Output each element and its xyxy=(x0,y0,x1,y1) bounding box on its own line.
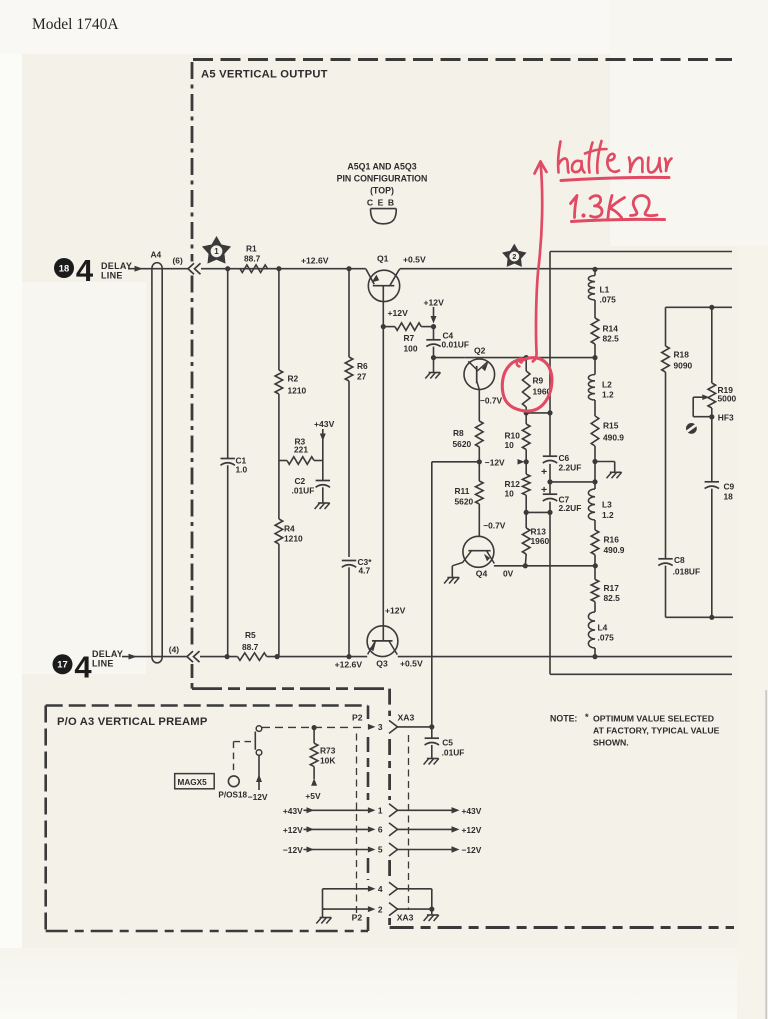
svg-text:4: 4 xyxy=(76,253,94,288)
svg-text:−0.7V: −0.7V xyxy=(483,520,506,530)
svg-text:C2: C2 xyxy=(295,476,306,486)
svg-text:B: B xyxy=(388,198,394,208)
svg-text:5: 5 xyxy=(378,845,383,855)
svg-text:C5: C5 xyxy=(442,738,453,748)
svg-text:+12V: +12V xyxy=(424,298,445,308)
svg-text:R6: R6 xyxy=(357,361,368,371)
svg-text:R12: R12 xyxy=(505,479,521,489)
svg-text:2.2UF: 2.2UF xyxy=(559,503,582,513)
svg-text:0.01UF: 0.01UF xyxy=(442,340,469,350)
svg-text:10K: 10K xyxy=(320,756,335,766)
svg-text:490.9: 490.9 xyxy=(604,545,625,555)
svg-text:+0.5V: +0.5V xyxy=(403,255,426,265)
svg-text:2.2UF: 2.2UF xyxy=(559,463,582,473)
svg-text:82.5: 82.5 xyxy=(603,334,620,344)
svg-text:*: * xyxy=(585,712,589,722)
svg-text:R18: R18 xyxy=(674,350,690,360)
svg-text:R5: R5 xyxy=(245,630,256,640)
svg-text:+43V: +43V xyxy=(314,419,335,429)
svg-text:+: + xyxy=(541,484,547,496)
svg-text:XA3: XA3 xyxy=(397,913,414,923)
svg-text:L4: L4 xyxy=(598,623,608,633)
svg-text:(6): (6) xyxy=(173,256,183,266)
svg-text:0V: 0V xyxy=(503,569,514,579)
svg-text:HF3: HF3 xyxy=(718,413,734,423)
svg-text:R15: R15 xyxy=(603,421,619,431)
svg-text:C8: C8 xyxy=(674,555,685,565)
svg-text:−12V: −12V xyxy=(485,457,505,467)
svg-text:.075: .075 xyxy=(598,633,615,643)
svg-text:10: 10 xyxy=(505,440,515,450)
svg-text:L3: L3 xyxy=(602,500,612,510)
svg-text:L2: L2 xyxy=(602,380,612,390)
svg-text:Model 1740A: Model 1740A xyxy=(32,16,119,33)
svg-text:P/OS18: P/OS18 xyxy=(218,791,247,800)
svg-text:1960: 1960 xyxy=(531,536,550,546)
svg-text:A4: A4 xyxy=(151,250,162,260)
svg-text:5620: 5620 xyxy=(453,439,472,449)
svg-text:3: 3 xyxy=(378,722,383,732)
svg-text:+12V: +12V xyxy=(462,825,482,835)
svg-text:1210: 1210 xyxy=(284,534,303,544)
svg-text:Q3: Q3 xyxy=(376,659,388,669)
svg-text:OPTIMUM VALUE SELECTED: OPTIMUM VALUE SELECTED xyxy=(593,714,714,724)
svg-text:LINE: LINE xyxy=(92,659,114,669)
svg-text:1.2: 1.2 xyxy=(602,510,614,520)
svg-text:(TOP): (TOP) xyxy=(370,186,394,196)
svg-text:R8: R8 xyxy=(453,428,464,438)
svg-text:1.0: 1.0 xyxy=(236,465,248,475)
svg-text:4.7: 4.7 xyxy=(359,566,371,576)
svg-text:88.7: 88.7 xyxy=(244,254,261,264)
svg-text:+12V: +12V xyxy=(385,606,406,616)
svg-text:SHOWN.: SHOWN. xyxy=(593,738,629,748)
svg-text:221: 221 xyxy=(294,445,308,455)
svg-text:1: 1 xyxy=(378,806,383,816)
svg-text:1.2: 1.2 xyxy=(602,390,614,400)
svg-text:Q4: Q4 xyxy=(476,569,488,579)
svg-text:10: 10 xyxy=(505,489,515,499)
svg-text:100: 100 xyxy=(404,344,418,354)
svg-text:+5V: +5V xyxy=(305,791,321,801)
svg-text:E: E xyxy=(378,198,384,208)
svg-text:490.9: 490.9 xyxy=(603,433,624,443)
svg-text:C9: C9 xyxy=(724,482,735,492)
svg-text:R2: R2 xyxy=(288,374,299,384)
svg-text:−12V: −12V xyxy=(248,792,268,802)
svg-text:+12V: +12V xyxy=(283,825,303,835)
svg-text:82.5: 82.5 xyxy=(604,593,621,603)
svg-text:+: + xyxy=(541,466,547,478)
svg-text:9090: 9090 xyxy=(674,361,693,371)
svg-text:.01UF: .01UF xyxy=(442,748,465,758)
svg-text:R9: R9 xyxy=(533,376,544,386)
svg-text:6: 6 xyxy=(378,825,383,835)
svg-text:P/O A3 VERTICAL PREAMP: P/O A3 VERTICAL PREAMP xyxy=(57,716,208,728)
svg-text:+12.6V: +12.6V xyxy=(335,660,363,670)
svg-text:27: 27 xyxy=(357,372,367,382)
svg-text:18: 18 xyxy=(724,492,734,502)
svg-text:4: 4 xyxy=(378,884,383,894)
svg-text:Q2: Q2 xyxy=(474,346,486,356)
svg-text:1210: 1210 xyxy=(288,386,307,396)
svg-text:R1: R1 xyxy=(246,244,257,254)
svg-text:+43V: +43V xyxy=(283,806,303,816)
svg-text:R14: R14 xyxy=(603,324,619,334)
svg-text:.018UF: .018UF xyxy=(673,567,700,577)
svg-text:C6: C6 xyxy=(559,453,570,463)
svg-text:.075: .075 xyxy=(600,295,617,305)
svg-text:L1: L1 xyxy=(600,285,610,295)
svg-text:1: 1 xyxy=(214,247,219,256)
svg-text:+12V: +12V xyxy=(388,308,409,318)
svg-text:R73: R73 xyxy=(320,746,336,756)
svg-text:R11: R11 xyxy=(455,486,470,496)
svg-text:18: 18 xyxy=(59,262,69,273)
svg-text:R10: R10 xyxy=(505,431,521,441)
svg-text:R16: R16 xyxy=(604,535,620,545)
svg-text:XA3: XA3 xyxy=(398,713,415,723)
svg-text:−12V: −12V xyxy=(283,845,303,855)
svg-text:Q1: Q1 xyxy=(377,254,389,264)
svg-text:A5Q1 AND A5Q3: A5Q1 AND A5Q3 xyxy=(347,162,416,172)
svg-text:AT FACTORY, TYPICAL VALUE: AT FACTORY, TYPICAL VALUE xyxy=(593,726,720,736)
svg-text:A5 VERTICAL OUTPUT: A5 VERTICAL OUTPUT xyxy=(201,69,328,81)
svg-text:R4: R4 xyxy=(284,524,295,534)
svg-text:DELAY: DELAY xyxy=(92,649,123,659)
svg-text:R7: R7 xyxy=(404,333,415,343)
svg-text:−0.7V: −0.7V xyxy=(480,396,503,406)
svg-text:+43V: +43V xyxy=(462,806,482,816)
svg-text:4: 4 xyxy=(74,649,92,684)
svg-text:LINE: LINE xyxy=(101,270,123,280)
svg-text:+12.6V: +12.6V xyxy=(301,256,329,266)
svg-text:R17: R17 xyxy=(604,583,620,593)
svg-text:C: C xyxy=(367,198,373,208)
svg-text:(4): (4) xyxy=(169,645,179,655)
svg-text:R13: R13 xyxy=(531,527,547,537)
svg-text:P2: P2 xyxy=(352,913,363,923)
svg-text:−12V: −12V xyxy=(462,845,482,855)
svg-text:MAGX5: MAGX5 xyxy=(178,778,208,787)
svg-text:17: 17 xyxy=(57,659,67,670)
svg-text:P2: P2 xyxy=(352,713,363,723)
svg-text:5000: 5000 xyxy=(718,394,737,404)
svg-text:+0.5V: +0.5V xyxy=(400,659,423,669)
svg-text:PIN CONFIGURATION: PIN CONFIGURATION xyxy=(337,174,428,184)
svg-text:.01UF: .01UF xyxy=(292,486,315,496)
svg-text:88.7: 88.7 xyxy=(242,642,259,652)
svg-text:2: 2 xyxy=(378,904,383,914)
svg-text:5620: 5620 xyxy=(455,497,474,507)
svg-text:2: 2 xyxy=(512,254,516,261)
svg-text:NOTE:: NOTE: xyxy=(550,714,577,724)
